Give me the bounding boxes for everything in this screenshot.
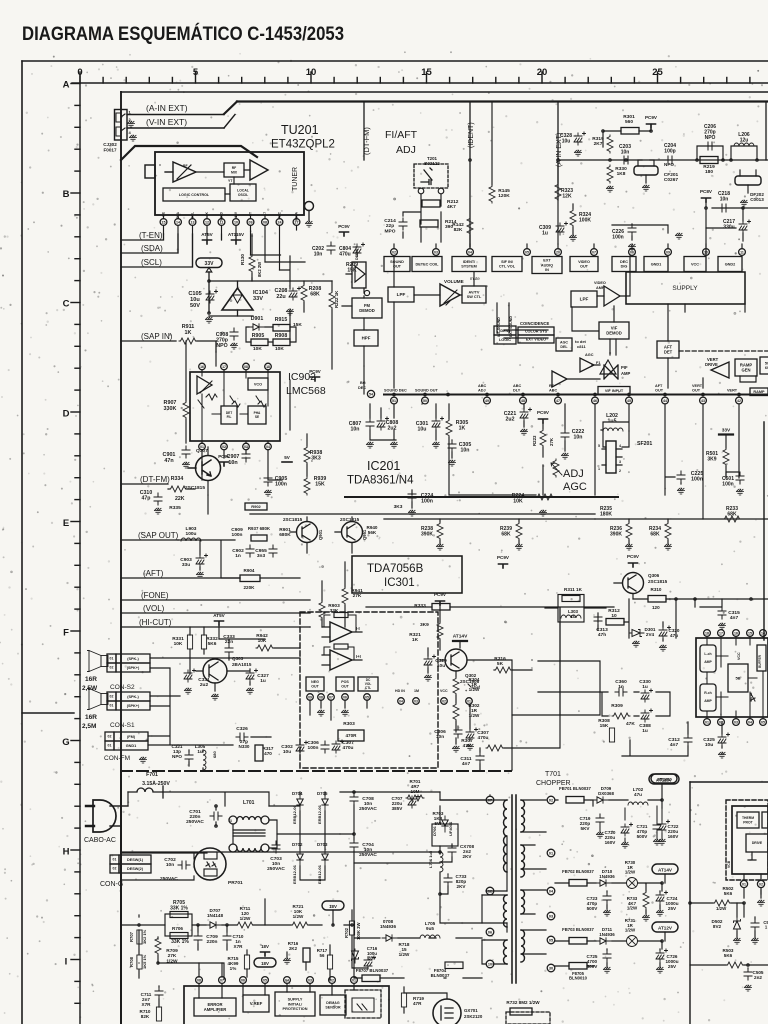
cap C719 bbox=[596, 814, 604, 826]
wire R145 stub bbox=[491, 102, 493, 185]
block LPF a bbox=[388, 287, 414, 302]
svg-text:1M: 1M bbox=[414, 689, 419, 693]
fm demod circle pin bbox=[364, 290, 369, 295]
wire if bus bbox=[560, 159, 768, 161]
resistor R212 bbox=[422, 200, 440, 207]
IC301 label box bbox=[352, 556, 462, 593]
wire A-IN bbox=[127, 114, 224, 116]
rail AT12V bbox=[652, 922, 678, 932]
wire R911 to Q bbox=[197, 341, 216, 352]
svg-text:C722220u160V: C722220u160V bbox=[668, 824, 680, 839]
svg-text:R31210: R31210 bbox=[608, 608, 620, 619]
conn SPK1c bbox=[107, 701, 116, 710]
svg-text:R71082K: R71082K bbox=[140, 1009, 151, 1019]
cap C360 h bbox=[615, 688, 627, 696]
svg-text:(SDA): (SDA) bbox=[141, 244, 163, 253]
transistor Q307 internals bbox=[188, 460, 211, 476]
zener D301 bbox=[630, 630, 644, 637]
svg-text:R937 680K: R937 680K bbox=[248, 526, 271, 531]
svg-text:(SPK+): (SPK+) bbox=[127, 666, 140, 670]
bar AT14V bbox=[453, 640, 467, 642]
svg-text:R94056K: R94056K bbox=[367, 525, 378, 535]
svg-text:HD IN: HD IN bbox=[395, 689, 405, 693]
svg-text:(T-EN): (T-EN) bbox=[139, 231, 163, 240]
resistor R238 vert bbox=[437, 522, 443, 540]
cap C701 h bbox=[210, 812, 222, 820]
vert line x764 bbox=[763, 422, 765, 640]
svg-text:I: I bbox=[65, 956, 68, 967]
svg-text:R14282K: R14282K bbox=[452, 222, 464, 233]
block COLOR SYS bbox=[518, 327, 554, 335]
tuner LOCAL OSCIL box bbox=[230, 184, 256, 201]
svg-text:SDA: SDA bbox=[176, 211, 180, 218]
power PC9V q306 bbox=[629, 563, 638, 567]
svg-text:R32312K: R32312K bbox=[561, 188, 573, 199]
resistor R908 bbox=[273, 339, 290, 346]
svg-text:CON-G: CON-G bbox=[100, 881, 123, 888]
svg-text:100K 3W: 100K 3W bbox=[356, 922, 361, 940]
transistor Q901 circle bbox=[297, 522, 318, 543]
svg-text:03: 03 bbox=[434, 251, 438, 255]
svg-text:DLY: DLY bbox=[513, 389, 521, 393]
svg-text:25: 25 bbox=[652, 67, 663, 78]
ecap C301 bbox=[432, 417, 444, 430]
resistor R319 vert bbox=[607, 135, 613, 153]
svg-text:(V-IN EXT): (V-IN EXT) bbox=[146, 117, 187, 127]
gnd ctrl bbox=[283, 958, 290, 964]
svg-text:2SC1815: 2SC1815 bbox=[340, 517, 360, 522]
control IC pins bbox=[196, 977, 203, 984]
resistor R317 bbox=[255, 745, 263, 761]
svg-text:04: 04 bbox=[748, 721, 752, 725]
conn SPK1a bbox=[107, 692, 116, 701]
svg-text:(IDENT): (IDENT) bbox=[468, 122, 475, 148]
svg-text:R9111K: R9111K bbox=[182, 324, 195, 336]
svg-text:11: 11 bbox=[740, 251, 744, 255]
pin label RAMP bbox=[750, 388, 768, 396]
ground C331 bbox=[184, 688, 191, 694]
svg-text:C9021n: C9021n bbox=[232, 548, 244, 559]
wires T701 primary bbox=[440, 792, 507, 964]
resistor R332 vert bbox=[201, 635, 206, 649]
svg-text:07: 07 bbox=[220, 979, 224, 983]
wire r333b bbox=[366, 606, 432, 608]
svg-text:AGC: AGC bbox=[585, 353, 594, 357]
dashed line right mid bbox=[679, 350, 768, 352]
ecap C309 bbox=[556, 222, 568, 235]
svg-text:D703: D703 bbox=[317, 842, 328, 847]
wires D901 cluster bbox=[246, 327, 296, 342]
power AT5V bbox=[203, 240, 212, 244]
bracket L206 bbox=[731, 146, 757, 160]
svg-text:R333: R333 bbox=[414, 603, 426, 609]
svg-text:BG: BG bbox=[360, 381, 366, 385]
resistor R707 vert bbox=[137, 930, 142, 944]
resistor FB703 bbox=[569, 938, 587, 945]
svg-text:AMP: AMP bbox=[596, 286, 605, 290]
svg-text:DEL: DEL bbox=[560, 345, 568, 349]
svg-text:mute: mute bbox=[470, 276, 480, 281]
svg-text:C70310n250VAC: C70310n250VAC bbox=[267, 856, 285, 872]
wire R130 bot bbox=[251, 273, 253, 281]
resistor R312 bbox=[606, 619, 624, 626]
resistor R305 vert bbox=[446, 419, 452, 437]
resistor R702 vert bbox=[349, 921, 354, 935]
wire 33V down bbox=[208, 272, 210, 313]
svg-text:R9383K3: R9383K3 bbox=[310, 450, 323, 462]
ground C901 bbox=[182, 462, 189, 468]
block LPF b bbox=[571, 291, 597, 307]
tuner pin row bbox=[163, 215, 165, 219]
svg-text:D3012V4: D3012V4 bbox=[645, 627, 656, 637]
svg-text:47: 47 bbox=[556, 399, 560, 403]
svg-text:R708: R708 bbox=[129, 956, 134, 967]
cap C908 bbox=[230, 328, 238, 340]
svg-text:04: 04 bbox=[266, 445, 270, 449]
svg-text:09: 09 bbox=[249, 220, 253, 224]
T701 primary pins bbox=[486, 796, 494, 804]
wire VOL bbox=[121, 612, 310, 614]
svg-text:05: 05 bbox=[761, 721, 765, 725]
svg-text:FIL: FIL bbox=[227, 415, 232, 419]
wires Q307 area bbox=[168, 447, 208, 495]
speaker SPK2 bbox=[88, 651, 109, 672]
wire SAP IN bbox=[121, 340, 176, 342]
svg-text:VCC: VCC bbox=[737, 652, 741, 660]
ecap C327 bbox=[246, 669, 258, 682]
svg-text:R5013K9: R5013K9 bbox=[706, 451, 718, 462]
svg-text:05: 05 bbox=[549, 939, 553, 943]
svg-text:06: 06 bbox=[630, 251, 634, 255]
grounds q302 area bbox=[452, 746, 459, 752]
resistor R331 vert bbox=[187, 635, 192, 649]
svg-text:33V: 33V bbox=[205, 261, 215, 267]
svg-text:C30610n: C30610n bbox=[434, 729, 446, 740]
vert line x766 top bbox=[765, 102, 767, 160]
cap C311 bbox=[476, 752, 484, 764]
ground R324 bbox=[569, 235, 576, 241]
coil L206 bbox=[734, 143, 754, 146]
svg-text:8K2 2W: 8K2 2W bbox=[257, 262, 262, 277]
resistor FB707 bbox=[362, 975, 380, 982]
svg-text:C3301u: C3301u bbox=[639, 679, 651, 690]
resistor R915 bbox=[273, 325, 290, 332]
svg-text:C20822u: C20822u bbox=[275, 288, 288, 300]
svg-text:ERB12-06: ERB12-06 bbox=[292, 805, 297, 824]
transistor Q901 internals bbox=[290, 524, 310, 540]
svg-text:ERB12-06: ERB12-06 bbox=[317, 865, 322, 884]
IC902 bottom pins bbox=[199, 443, 206, 450]
plug CABO-AC bbox=[93, 800, 116, 832]
svg-text:D702: D702 bbox=[292, 842, 303, 847]
wire pin10 down bbox=[235, 234, 237, 240]
svg-text:G: G bbox=[62, 737, 69, 748]
conn FM d bbox=[114, 741, 148, 750]
svg-text:10K: 10K bbox=[275, 346, 284, 352]
svg-text:07: 07 bbox=[592, 251, 596, 255]
wire pc8v down bbox=[705, 202, 707, 255]
svg-text:AT14V: AT14V bbox=[658, 868, 673, 873]
svg-text:C32810u: C32810u bbox=[560, 133, 572, 144]
transistor Q951 internals bbox=[335, 524, 355, 540]
ground C327 bbox=[246, 688, 253, 694]
svg-text:2SK2120: 2SK2120 bbox=[464, 1014, 483, 1019]
svg-text:DRIVE: DRIVE bbox=[705, 362, 718, 367]
svg-text:NPO: NPO bbox=[664, 162, 674, 167]
svg-text:470R: 470R bbox=[346, 733, 358, 738]
svg-text:C30510n: C30510n bbox=[459, 442, 472, 454]
block IDENT bbox=[494, 326, 516, 335]
grounds zone4 bbox=[366, 442, 373, 448]
svg-text:FI/AFT: FI/AFT bbox=[385, 129, 418, 141]
svg-text:AUDIO: AUDIO bbox=[541, 263, 553, 267]
tuner antenna circle bbox=[305, 202, 314, 211]
bridge diodes bbox=[297, 795, 303, 811]
svg-text:AT5V: AT5V bbox=[201, 232, 213, 237]
resistor R321 vert bbox=[437, 622, 443, 640]
svg-text:F701: F701 bbox=[146, 772, 158, 778]
svg-text:R7111201/2W: R7111201/2W bbox=[240, 906, 251, 921]
resistor R719 vert bbox=[401, 993, 406, 1007]
wires bottom power bbox=[354, 863, 482, 1024]
svg-text:C3312u2: C3312u2 bbox=[198, 677, 210, 688]
deflection pins bbox=[740, 880, 747, 887]
transistor Q307 circle bbox=[196, 456, 221, 481]
zener D502 bbox=[734, 917, 741, 931]
svg-text:C10510u50V: C10510u50V bbox=[188, 291, 201, 309]
svg-text:03: 03 bbox=[244, 445, 248, 449]
svg-text:AMP: AMP bbox=[621, 371, 631, 376]
svg-text:OSCIL: OSCIL bbox=[238, 193, 248, 197]
cap C203 h bbox=[620, 156, 632, 164]
svg-text:SOUND OUT: SOUND OUT bbox=[415, 389, 438, 393]
svg-text:08: 08 bbox=[197, 979, 201, 983]
svg-text:09: 09 bbox=[308, 696, 312, 700]
coil L202 bbox=[603, 428, 623, 431]
block extra bbox=[762, 812, 768, 828]
R705 R706 loop bbox=[165, 914, 192, 936]
ground cj302 b bbox=[129, 135, 136, 141]
wires c226 row bbox=[612, 224, 668, 240]
svg-text:2SC1815: 2SC1815 bbox=[648, 579, 668, 584]
cap C907 ic902 bbox=[242, 450, 250, 462]
svg-text:18V: 18V bbox=[261, 944, 269, 949]
cap C225 bbox=[677, 471, 685, 483]
svg-text:R93915K: R93915K bbox=[314, 476, 327, 488]
svg-text:10K: 10K bbox=[253, 346, 262, 352]
svg-text:02: 02 bbox=[392, 251, 396, 255]
svg-text:C721470p500V: C721470p500V bbox=[637, 824, 649, 839]
resistor R307 zz bbox=[486, 745, 504, 751]
svg-text:50: 50 bbox=[423, 399, 427, 403]
opamp feedback resistors bbox=[334, 613, 348, 618]
svg-text:14: 14 bbox=[176, 220, 180, 224]
svg-text:R71947R: R71947R bbox=[413, 996, 424, 1006]
svg-text:46: 46 bbox=[593, 399, 597, 403]
svg-text:01: 01 bbox=[108, 744, 112, 748]
svg-text:TU201: TU201 bbox=[281, 123, 319, 137]
svg-text:AGC: AGC bbox=[560, 341, 568, 345]
svg-text:R7014R710M: R7014R710M bbox=[410, 779, 421, 794]
triangle VIDEO AMP bbox=[604, 286, 620, 306]
svg-text:(SCL): (SCL) bbox=[141, 258, 162, 267]
transistor Q306 circle bbox=[623, 573, 644, 594]
svg-text:SW CTL: SW CTL bbox=[467, 295, 482, 299]
svg-text:F: F bbox=[63, 628, 69, 639]
ground C501 bbox=[736, 489, 743, 495]
resistor R502 zz bbox=[713, 900, 731, 906]
svg-text:D704: D704 bbox=[292, 791, 303, 796]
svg-text:44: 44 bbox=[663, 399, 667, 403]
T701 secondary pins bbox=[547, 796, 555, 804]
svg-text:(SPK-): (SPK-) bbox=[127, 695, 139, 699]
svg-text:C7112n7X7R: C7112n7X7R bbox=[141, 992, 152, 1007]
svg-text:07081N4936: 07081N4936 bbox=[380, 919, 397, 929]
R311 L303 loop bbox=[558, 595, 584, 623]
svg-text:R904: R904 bbox=[244, 568, 255, 573]
dashed box bottom bbox=[506, 1012, 550, 1024]
wires r502 bbox=[690, 890, 761, 917]
svg-text:10: 10 bbox=[488, 963, 492, 967]
svg-text:27pN330: 27pN330 bbox=[239, 739, 250, 749]
grounds d502 bbox=[733, 938, 740, 944]
power 18V b bbox=[261, 952, 270, 956]
cap C306b bbox=[454, 726, 462, 738]
svg-text:02: 02 bbox=[110, 695, 114, 699]
ecap C105 bbox=[206, 290, 218, 303]
wire r310 out bbox=[666, 598, 768, 600]
svg-text:R324100K: R324100K bbox=[579, 212, 591, 223]
svg-text:C733820p2KV: C733820p2KV bbox=[456, 874, 467, 889]
block 5060 bbox=[760, 357, 768, 374]
svg-text:2SC1815: 2SC1815 bbox=[185, 485, 205, 491]
svg-text:C5052n2: C5052n2 bbox=[753, 970, 764, 980]
wires zone4 right bbox=[703, 404, 739, 519]
svg-text:CF201C0267: CF201C0267 bbox=[664, 172, 679, 183]
svg-text:5: 5 bbox=[598, 444, 600, 448]
wires control pins bbox=[199, 963, 354, 998]
wires zone4 bbox=[370, 404, 595, 508]
svg-text:R3165K: R3165K bbox=[494, 656, 506, 667]
block PIF AMP X bbox=[604, 365, 618, 379]
ground C313x bbox=[632, 641, 639, 647]
svg-text:GND1: GND1 bbox=[126, 744, 137, 748]
triangle AGC F1 bbox=[580, 358, 594, 372]
svg-text:C70410n250VAC: C70410n250VAC bbox=[359, 842, 377, 858]
wire x560 vert bbox=[559, 608, 561, 715]
svg-text:C31047p: C31047p bbox=[140, 490, 153, 502]
zener C716 pair bbox=[352, 949, 359, 963]
block RAMP GEN bbox=[735, 359, 757, 376]
svg-text:R238390K: R238390K bbox=[421, 526, 433, 537]
ecap C320x bbox=[659, 626, 671, 639]
wire rail bottom right bbox=[690, 903, 748, 968]
IC301 pins bbox=[398, 698, 405, 705]
wires r503 bbox=[690, 964, 768, 966]
svg-text:R3211K: R3211K bbox=[409, 632, 421, 643]
svg-text:R915: R915 bbox=[275, 317, 288, 323]
svg-text:R702: R702 bbox=[344, 927, 349, 938]
wires power input bbox=[110, 792, 277, 880]
svg-text:C7254700500V: C7254700500V bbox=[587, 954, 599, 969]
svg-text:1: 1 bbox=[129, 110, 132, 115]
svg-text:R335: R335 bbox=[169, 505, 181, 511]
ecap C388 bbox=[641, 709, 653, 722]
diode D707 bbox=[206, 922, 222, 928]
svg-text:DEEMP/: DEEMP/ bbox=[355, 246, 359, 260]
cap C807 bbox=[366, 418, 374, 430]
svg-text:C720220u160V: C720220u160V bbox=[605, 830, 617, 845]
svg-text:06: 06 bbox=[343, 696, 347, 700]
svg-text:VERT: VERT bbox=[727, 389, 738, 393]
svg-text:D5028V2: D5028V2 bbox=[712, 919, 723, 929]
svg-text:R70927K1/2W: R70927K1/2W bbox=[166, 948, 178, 964]
svg-text:IC201: IC201 bbox=[367, 459, 400, 473]
ecap C217 bbox=[739, 220, 751, 233]
resistor R236 vert bbox=[626, 522, 632, 540]
svg-text:B: B bbox=[63, 189, 70, 200]
IC902 internal parts bbox=[198, 372, 268, 443]
conn SPK2a bbox=[107, 654, 116, 663]
svg-text:R219180: R219180 bbox=[703, 164, 715, 175]
rail AT115V bbox=[649, 774, 679, 784]
cap C901 bbox=[182, 446, 190, 458]
svg-text:06: 06 bbox=[488, 931, 492, 935]
svg-text:SOUND DEC: SOUND DEC bbox=[384, 389, 407, 393]
svg-text:15: 15 bbox=[421, 67, 432, 78]
svg-text:(DT-FM): (DT-FM) bbox=[140, 475, 170, 484]
svg-text:IDENT/: IDENT/ bbox=[463, 260, 476, 264]
resistor R323 zigv bbox=[555, 183, 561, 201]
svg-text:L70247u: L70247u bbox=[633, 787, 644, 797]
resistor R907 zig vert bbox=[183, 401, 189, 419]
svg-text:R7334K71/2W: R7334K71/2W bbox=[627, 896, 638, 911]
svg-text:R3325K6: R3325K6 bbox=[206, 636, 218, 647]
svg-text:03: 03 bbox=[549, 915, 553, 919]
svg-text:01: 01 bbox=[113, 858, 117, 862]
svg-text:3K9: 3K9 bbox=[420, 622, 429, 628]
audio IC R-ch amp bbox=[700, 684, 716, 711]
audio IC bottom pins bbox=[704, 719, 711, 726]
svg-text:05: 05 bbox=[263, 979, 267, 983]
transistor Q303 internals bbox=[196, 662, 218, 680]
svg-text:R3301K8: R3301K8 bbox=[615, 166, 627, 177]
svg-text:C224100n: C224100n bbox=[421, 493, 434, 505]
svg-text:16: 16 bbox=[200, 365, 204, 369]
signal box SIF IN/ bbox=[492, 257, 522, 272]
svg-text:03: 03 bbox=[308, 979, 312, 983]
boundary diagonal NE bbox=[224, 102, 237, 115]
svg-text:R732 8M2 1/2W: R732 8M2 1/2W bbox=[506, 1000, 540, 1005]
svg-text:R222 1K: R222 1K bbox=[334, 290, 339, 308]
svg-text:OUT: OUT bbox=[311, 684, 319, 688]
wire row519 bbox=[595, 518, 768, 520]
pin label DC VOL CTL bbox=[358, 677, 378, 691]
svg-text:(SPK+): (SPK+) bbox=[127, 704, 140, 708]
svg-text:C707220u385V: C707220u385V bbox=[392, 796, 404, 811]
svg-text:R23468K: R23468K bbox=[649, 526, 661, 537]
schematic top line bbox=[121, 91, 768, 93]
ecap C720 bbox=[621, 823, 633, 836]
cap C710 bbox=[223, 932, 231, 944]
op-amp A bbox=[330, 622, 352, 642]
svg-text:PC9V: PC9V bbox=[497, 555, 510, 560]
wires r311 row bbox=[545, 599, 663, 641]
svg-text:D: D bbox=[63, 408, 70, 419]
svg-text:A: A bbox=[63, 80, 70, 91]
resistor R334 zz bbox=[169, 486, 187, 492]
svg-text:1K5 1%: 1K5 1% bbox=[142, 954, 147, 969]
